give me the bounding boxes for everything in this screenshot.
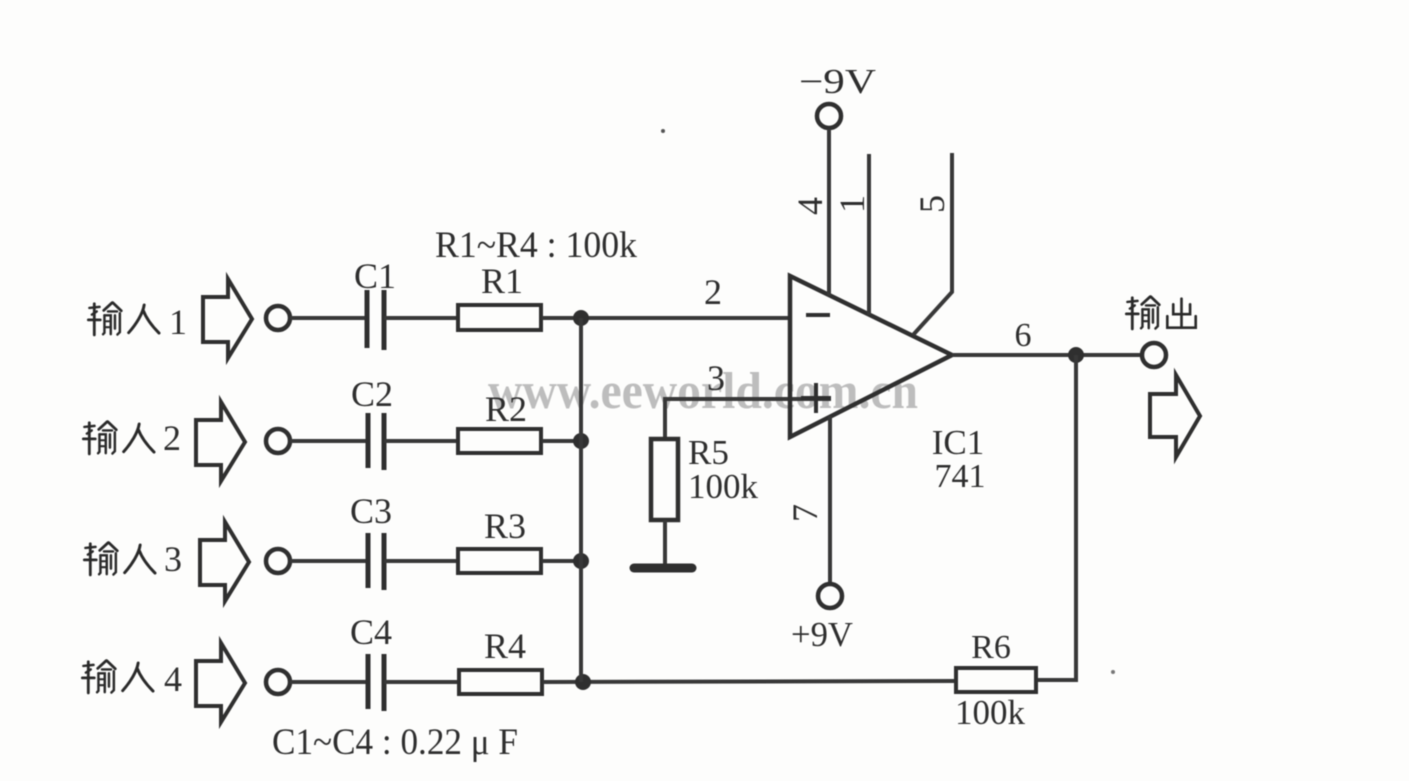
input arrow 1	[203, 279, 252, 358]
svg-text:2: 2	[163, 418, 181, 458]
wire pin3	[665, 399, 831, 439]
wire summing bus	[579, 318, 583, 682]
output terminal	[1142, 343, 1166, 367]
speckle near R6	[1111, 670, 1115, 674]
capacitor C1	[367, 290, 384, 350]
input label 输入 4	[82, 659, 182, 699]
wire pin1	[867, 154, 871, 315]
node junction row2	[573, 433, 589, 449]
svg-text:7: 7	[785, 504, 825, 522]
capacitor C4	[368, 654, 384, 711]
svg-text:4: 4	[790, 197, 830, 215]
svg-text:+9V: +9V	[791, 615, 853, 654]
resistor R1	[458, 305, 541, 330]
input label 输入 2	[83, 418, 181, 458]
terminal -9V	[817, 104, 841, 128]
terminal +9V	[818, 584, 842, 608]
resistor R2	[458, 429, 541, 453]
wire R1 to op-amp pin2	[542, 316, 790, 320]
svg-text:C3: C3	[350, 491, 392, 531]
svg-text:R1~R4 : 100k: R1~R4 : 100k	[435, 225, 637, 266]
input terminal 3	[266, 549, 290, 573]
wire input3 to C3	[290, 559, 368, 563]
svg-text:C1~C4 : 0.22 μ F: C1~C4 : 0.22 μ F	[272, 722, 518, 763]
svg-text:C2: C2	[351, 374, 393, 414]
speckle near node	[661, 129, 665, 133]
wire R3 to bus	[542, 559, 581, 563]
output label 输出	[1126, 297, 1195, 329]
svg-text:www.eeworld.com.cn: www.eeworld.com.cn	[488, 363, 918, 420]
wire pin7	[828, 416, 832, 584]
output arrow	[1150, 375, 1200, 457]
wire input1 to C1	[290, 316, 367, 320]
input terminal 4	[266, 670, 290, 694]
wire R4 to R6	[543, 681, 954, 682]
op-amp U1 triangle	[790, 276, 952, 437]
svg-text:C4: C4	[350, 612, 392, 652]
node junction row1	[573, 310, 589, 326]
wire C2 to R2	[384, 439, 457, 443]
wire input4 to C4	[290, 680, 368, 684]
svg-text:R2: R2	[485, 389, 527, 429]
svg-text:3: 3	[164, 539, 182, 579]
op-amp plus sign	[801, 383, 831, 413]
svg-text:1: 1	[169, 302, 187, 342]
svg-text:IC1: IC1	[932, 423, 985, 462]
wire R6 to feedback corner	[1038, 678, 1078, 682]
svg-text:5: 5	[912, 195, 952, 213]
svg-text:R1: R1	[481, 261, 523, 301]
svg-text:C1: C1	[354, 256, 396, 296]
input terminal 1	[266, 306, 290, 330]
resistor R6	[956, 668, 1036, 692]
node junction row4	[575, 674, 591, 690]
svg-text:3: 3	[707, 358, 725, 398]
input arrow 4	[196, 643, 245, 722]
input label 输入 3	[84, 539, 182, 579]
svg-text:100k: 100k	[955, 693, 1026, 732]
wire output	[952, 353, 1143, 357]
svg-text:4: 4	[164, 659, 182, 699]
input arrow 3	[200, 522, 249, 601]
wire pin5	[913, 153, 952, 335]
svg-text:R3: R3	[484, 506, 526, 546]
svg-text:741: 741	[935, 458, 986, 495]
wire input2 to C2	[290, 439, 368, 443]
capacitor C2	[368, 413, 384, 470]
resistor R5	[651, 439, 678, 520]
op-amp minus sign	[806, 313, 830, 317]
resistor R4	[459, 670, 542, 694]
input arrow 2	[196, 402, 245, 481]
svg-text:R4: R4	[484, 626, 526, 666]
wire R5 to ground	[663, 520, 667, 566]
wire feedback vertical	[1074, 355, 1078, 680]
node junction row3	[573, 553, 589, 569]
wire C1 to R1	[384, 316, 457, 320]
capacitor C3	[368, 533, 384, 590]
svg-text:R6: R6	[971, 629, 1011, 666]
svg-text:100k: 100k	[688, 467, 759, 506]
svg-text:1: 1	[832, 195, 872, 213]
wire pin4	[827, 129, 831, 296]
input label 输入 1	[88, 302, 187, 342]
svg-text:6: 6	[1015, 317, 1032, 354]
node output junction	[1068, 347, 1084, 363]
wire C4 to R4	[384, 680, 458, 684]
svg-text:2: 2	[704, 272, 722, 312]
ground	[634, 564, 692, 573]
wire R2 to bus	[542, 439, 581, 443]
input terminal 2	[266, 429, 290, 453]
resistor R3	[458, 549, 541, 573]
wire C3 to R3	[384, 559, 457, 563]
svg-text:−9V: −9V	[799, 62, 876, 101]
